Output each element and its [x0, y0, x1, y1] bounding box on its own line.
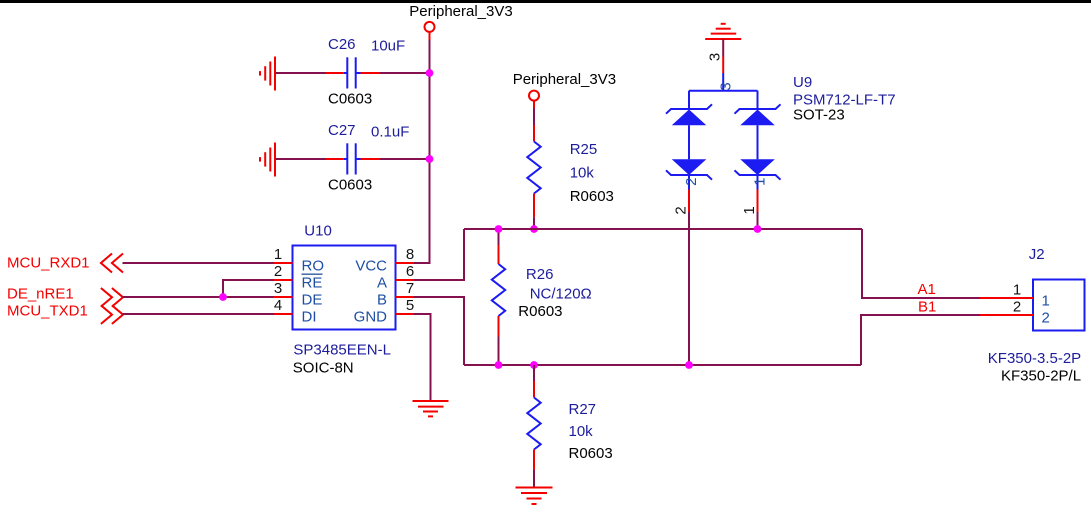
svg-text:2: 2	[673, 206, 690, 214]
resistor R26 NC/120ohm R0603	[492, 245, 592, 337]
svg-text:R0603: R0603	[570, 188, 614, 205]
svg-text:1: 1	[752, 178, 769, 186]
wire: U10 GND pin to ground	[414, 314, 431, 401]
svg-text:SOT-23: SOT-23	[793, 107, 845, 124]
svg-text:7: 7	[406, 280, 414, 297]
svg-text:C26: C26	[328, 36, 356, 53]
svg-text:R25: R25	[570, 141, 598, 158]
power port Peripheral_3V3 (R25)	[513, 71, 616, 108]
junction U9 pin2 / B bus	[685, 361, 693, 369]
port MCU_TXD1	[7, 303, 123, 324]
svg-text:C27: C27	[328, 122, 356, 139]
wire: U9 pin 2 down to B bus	[688, 212, 690, 365]
svg-text:U10: U10	[304, 223, 332, 240]
svg-text:RO: RO	[302, 258, 325, 275]
svg-text:A1: A1	[918, 281, 936, 298]
U9 pin 2 stub	[673, 190, 690, 215]
svg-text:RE: RE	[302, 275, 323, 292]
svg-text:DE: DE	[302, 292, 323, 309]
wire: U10 pin B to B bus	[414, 297, 464, 365]
wire: C27 gnd to cap	[275, 158, 326, 160]
svg-text:2: 2	[683, 178, 700, 186]
junction R25/A bus	[530, 225, 538, 233]
junction R27/B bus	[530, 361, 538, 369]
svg-text:1: 1	[1013, 282, 1021, 299]
svg-text:Peripheral_3V3: Peripheral_3V3	[409, 3, 512, 20]
power port Peripheral_3V3 (top rail)	[409, 3, 512, 40]
svg-text:10k: 10k	[569, 423, 594, 440]
svg-text:1: 1	[274, 246, 282, 263]
junction U9 pin1 / A bus	[754, 225, 762, 233]
connector J2 KF350-3.5-2P	[980, 246, 1085, 384]
svg-text:2: 2	[1042, 310, 1050, 327]
svg-text:10uF: 10uF	[371, 37, 405, 54]
wire: MCU_TXD1 to U10 pin 4	[123, 313, 274, 315]
svg-text:DE_nRE1: DE_nRE1	[7, 286, 74, 303]
ground (above U9, flipped)	[705, 24, 741, 39]
svg-text:SOIC-8N: SOIC-8N	[293, 360, 354, 377]
port DE_nRE1	[7, 286, 123, 307]
svg-text:3: 3	[718, 82, 735, 90]
svg-text:C0603: C0603	[328, 177, 372, 194]
wire: B bus right rise to J2	[861, 315, 980, 365]
wire: B net bottom bus	[464, 364, 861, 366]
wire: R27 to ground	[533, 470, 535, 488]
wire: C26 gnd to cap	[275, 72, 326, 74]
net label B1	[918, 299, 936, 316]
wire: ground to U9 pin 3	[722, 39, 724, 57]
wire: DE_nRE1 to U10 pin 3	[123, 296, 274, 298]
svg-text:R0603: R0603	[518, 303, 562, 320]
svg-text:DI: DI	[302, 309, 317, 326]
port MCU_RXD1	[7, 254, 123, 273]
wire: R26 to B bus	[498, 337, 500, 366]
wire: A bus to R26	[498, 229, 500, 245]
ground (left of C27)	[260, 143, 275, 177]
svg-text:GND: GND	[354, 309, 388, 326]
wire: U9 pin 1 down to A bus	[757, 212, 759, 229]
wire: C26 to rail	[380, 72, 430, 74]
sheet top border	[0, 0, 1091, 3]
wire: MCU_RXD1 to U10 pin 1	[123, 262, 274, 264]
svg-text:R27: R27	[569, 401, 597, 418]
svg-text:U9: U9	[793, 74, 812, 91]
svg-text:R0603: R0603	[569, 445, 613, 462]
svg-text:2: 2	[274, 263, 282, 280]
svg-text:8: 8	[406, 246, 414, 263]
resistor R27 10k R0603	[527, 381, 612, 470]
wire: A bus left drop to U10 pin A	[414, 229, 464, 280]
U9 pin 3 stub	[707, 53, 724, 73]
svg-text:3: 3	[707, 53, 724, 61]
svg-text:3: 3	[274, 280, 282, 297]
net label A1	[918, 281, 936, 298]
wire: VCC rail x=430 from power port down to U10 pin 8	[414, 40, 430, 263]
svg-text:J2: J2	[1029, 246, 1045, 263]
svg-text:6: 6	[406, 263, 414, 280]
TVS array U9 PSM712-LF-T7 SOT-23	[666, 73, 896, 190]
ground (below U10)	[413, 401, 449, 416]
svg-text:2: 2	[1013, 299, 1021, 316]
svg-text:SP3485EEN-L: SP3485EEN-L	[293, 342, 391, 359]
wire: DE node up to U10 pin 2	[223, 280, 274, 297]
junction R26/A bus	[495, 225, 503, 233]
wire: R25 to A bus	[533, 217, 535, 229]
svg-text:4: 4	[274, 297, 282, 314]
ground (below R27)	[516, 488, 553, 505]
wire: A bus right drop to J2	[862, 229, 980, 298]
svg-text:MCU_TXD1: MCU_TXD1	[7, 303, 88, 320]
svg-text:R26: R26	[526, 266, 554, 283]
svg-text:MCU_RXD1: MCU_RXD1	[7, 254, 90, 271]
U9 pin 1 stub	[741, 190, 758, 215]
junction DE_nRE1 node	[219, 293, 227, 301]
junction R26/B bus	[495, 361, 503, 369]
svg-text:1: 1	[1042, 293, 1050, 310]
svg-text:A: A	[377, 275, 387, 292]
op-amp-style IC U10 SP3485EEN-L SOIC-8N	[274, 223, 415, 377]
svg-text:C0603: C0603	[328, 91, 372, 108]
resistor R25 10k R0603	[527, 125, 614, 217]
svg-text:KF350-2P/L: KF350-2P/L	[1001, 367, 1081, 384]
svg-text:VCC: VCC	[355, 258, 387, 275]
capacitor C26 10uF C0603	[326, 36, 406, 108]
wire: A net top bus	[464, 228, 862, 230]
svg-text:B1: B1	[918, 299, 936, 316]
svg-text:1: 1	[741, 206, 758, 214]
capacitor C27 0.1uF C0603	[326, 122, 410, 194]
wire: B bus to R27	[533, 365, 535, 381]
junction C26/rail	[426, 69, 434, 77]
wire: port to R25	[533, 108, 535, 125]
ground (left of C26)	[260, 57, 275, 91]
svg-text:NC/120Ω: NC/120Ω	[530, 285, 592, 302]
svg-text:10k: 10k	[570, 165, 595, 182]
svg-text:0.1uF: 0.1uF	[371, 123, 409, 140]
wire: C27 to rail	[380, 158, 430, 160]
svg-text:5: 5	[406, 297, 414, 314]
junction C27/rail	[426, 155, 434, 163]
svg-text:KF350-3.5-2P: KF350-3.5-2P	[988, 350, 1081, 367]
svg-text:Peripheral_3V3: Peripheral_3V3	[513, 71, 616, 88]
svg-text:B: B	[377, 292, 387, 309]
